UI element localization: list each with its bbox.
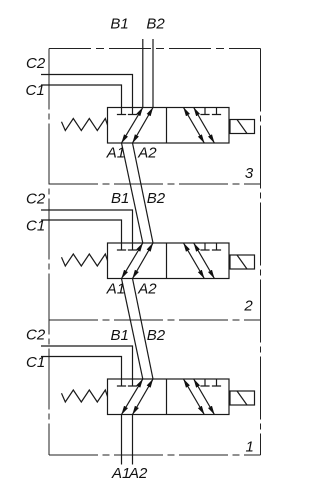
svg-text:2: 2 [243,297,253,314]
wire C2 section 1 [41,346,133,379]
wire B2 top [152,39,154,108]
valve U3 [62,108,255,144]
svg-text:B2: B2 [146,16,165,33]
section separator 3/2 [49,183,261,185]
svg-text:A1: A1 [106,281,125,298]
svg-text:A2: A2 [137,281,157,298]
wire C2 section 3 [41,75,133,108]
wire A2(v2) to B2(v1) [133,279,154,380]
svg-text:A2: A2 [128,465,148,482]
wire A1 bottom exit [121,415,123,465]
wire A2 bottom exit [132,415,134,465]
wire C2 section 2 [41,210,133,243]
svg-text:3: 3 [245,165,254,182]
svg-text:C2: C2 [26,327,46,344]
svg-text:A1: A1 [111,465,130,482]
svg-text:A2: A2 [137,145,157,162]
svg-text:1: 1 [246,438,254,455]
svg-text:B1: B1 [110,16,128,33]
svg-text:C2: C2 [26,55,46,72]
wire B1 top [142,39,144,108]
frame bottom [49,454,261,456]
section separator 2/1 [49,319,261,321]
svg-text:B1: B1 [111,190,129,207]
frame top [49,48,261,50]
wire A1(v2) to B1(v1) [122,279,143,380]
enclosure frame (dash-dot) [49,49,261,456]
svg-text:C1: C1 [26,354,45,371]
valve U2 [62,243,255,279]
wire A1(v3) to B1(v2) [122,143,143,243]
wire A2(v3) to B2(v2) [133,143,154,243]
svg-text:B2: B2 [147,190,166,207]
wire C1 section 1 [41,357,122,380]
valve U1 [62,379,255,415]
frame right [260,49,262,456]
svg-text:C2: C2 [26,191,46,208]
svg-text:C1: C1 [26,82,45,99]
frame left [48,49,50,456]
svg-text:B1: B1 [111,327,129,344]
wire C1 section 2 [41,220,122,243]
svg-text:A1: A1 [106,145,125,162]
svg-text:B2: B2 [147,327,166,344]
svg-text:C1: C1 [26,218,45,235]
wire C1 section 3 [41,85,122,108]
